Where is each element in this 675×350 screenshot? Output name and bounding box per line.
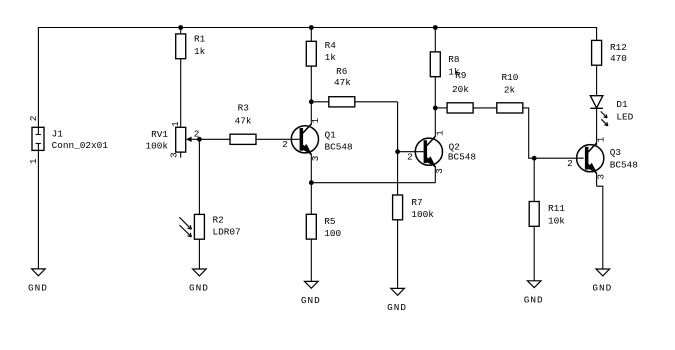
svg-text:2: 2: [407, 152, 413, 163]
svg-text:2k: 2k: [504, 85, 516, 96]
svg-text:1k: 1k: [194, 46, 206, 57]
svg-text:Q2: Q2: [449, 141, 460, 152]
svg-text:BC548: BC548: [325, 142, 354, 153]
svg-text:Conn_02x01: Conn_02x01: [52, 140, 109, 151]
svg-text:1: 1: [170, 121, 181, 127]
svg-text:1: 1: [434, 130, 445, 136]
svg-text:Q1: Q1: [325, 129, 337, 140]
svg-text:RV1: RV1: [151, 129, 168, 140]
svg-text:LDR07: LDR07: [213, 227, 241, 238]
svg-text:2: 2: [567, 158, 573, 169]
svg-text:R7: R7: [411, 197, 422, 208]
svg-text:3: 3: [310, 155, 321, 161]
svg-text:470: 470: [610, 53, 627, 64]
svg-text:BC548: BC548: [610, 160, 639, 171]
svg-text:R5: R5: [324, 216, 336, 227]
svg-text:GND: GND: [28, 283, 48, 294]
svg-text:D1: D1: [616, 99, 628, 110]
svg-text:GND: GND: [524, 295, 544, 306]
svg-text:R4: R4: [325, 40, 337, 51]
svg-text:R1: R1: [194, 34, 206, 45]
svg-text:R11: R11: [548, 203, 565, 214]
svg-text:LED: LED: [616, 111, 633, 122]
svg-text:2: 2: [194, 129, 200, 140]
svg-text:R8: R8: [448, 54, 460, 65]
svg-text:GND: GND: [301, 295, 321, 306]
svg-text:10k: 10k: [548, 215, 565, 226]
svg-text:3: 3: [434, 168, 445, 174]
svg-text:47k: 47k: [235, 115, 252, 126]
svg-text:2: 2: [28, 116, 39, 122]
svg-text:1k: 1k: [325, 52, 337, 63]
svg-text:R2: R2: [213, 215, 224, 226]
svg-text:2: 2: [282, 139, 288, 150]
svg-text:1: 1: [595, 136, 606, 142]
svg-text:R10: R10: [501, 72, 518, 83]
svg-text:R12: R12: [610, 42, 627, 53]
svg-text:20k: 20k: [452, 84, 469, 95]
svg-text:R6: R6: [336, 66, 348, 77]
svg-text:Q3: Q3: [610, 147, 622, 158]
svg-text:1: 1: [28, 158, 39, 164]
svg-text:1: 1: [310, 118, 321, 124]
svg-text:100: 100: [324, 228, 341, 239]
svg-text:GND: GND: [592, 283, 612, 294]
svg-text:R3: R3: [238, 103, 250, 114]
svg-text:GND: GND: [387, 302, 407, 313]
svg-text:BC548: BC548: [448, 152, 477, 163]
svg-text:3: 3: [168, 152, 179, 158]
svg-text:100k: 100k: [411, 209, 434, 220]
svg-text:J1: J1: [52, 129, 64, 140]
svg-text:100k: 100k: [145, 141, 168, 152]
svg-text:R9: R9: [455, 70, 466, 81]
svg-text:3: 3: [595, 174, 606, 180]
svg-text:GND: GND: [189, 283, 209, 294]
svg-text:47k: 47k: [334, 77, 351, 88]
